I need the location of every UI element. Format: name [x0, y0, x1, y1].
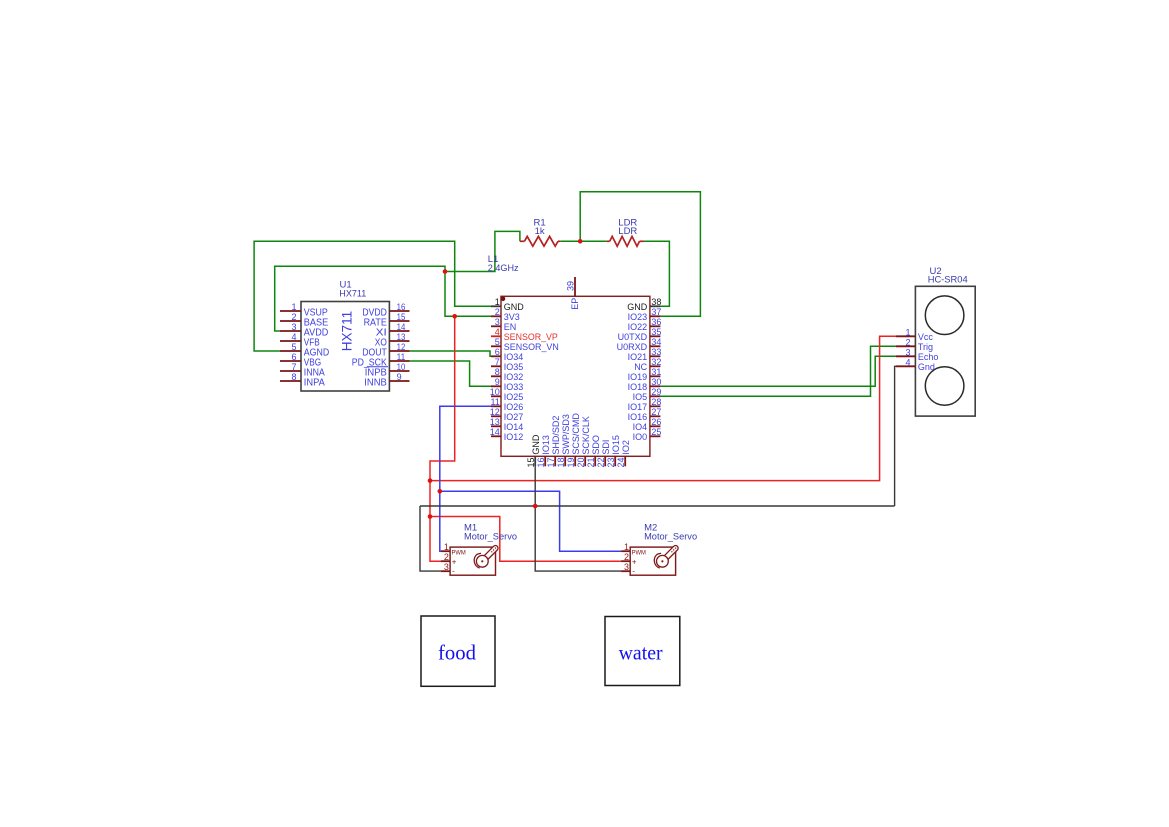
wire black ESP GND pin15 down to M2 minus pin3: [535, 466, 621, 571]
svg-text:-: -: [452, 567, 455, 576]
svg-text:food: food: [438, 640, 476, 664]
svg-text:14: 14: [397, 322, 406, 332]
wire green junction down to ESP 3V3 pin2: [445, 272, 491, 317]
svg-text:IO35: IO35: [504, 362, 524, 372]
svg-text:22: 22: [596, 457, 606, 467]
junction blue M2 branch: [438, 489, 443, 494]
svg-text:GND: GND: [531, 434, 541, 455]
svg-text:GND: GND: [504, 302, 525, 312]
wire green AGND to ESP GND pin1: [254, 241, 491, 351]
svg-text:SENSOR_VN: SENSOR_VN: [504, 342, 559, 352]
svg-text:33: 33: [651, 347, 661, 357]
svg-text:PWM: PWM: [452, 550, 466, 557]
wire black rail left end down to M1 minus pin3: [420, 506, 441, 571]
svg-text:2.4GHz: 2.4GHz: [488, 263, 519, 274]
svg-text:6: 6: [495, 347, 500, 357]
svg-text:+: +: [632, 558, 637, 567]
svg-text:4: 4: [905, 357, 910, 367]
svg-text:SDO: SDO: [591, 435, 601, 455]
svg-text:IO22: IO22: [628, 322, 648, 332]
svg-text:INPA: INPA: [304, 378, 325, 389]
svg-text:Motor_Servo: Motor_Servo: [644, 532, 697, 543]
svg-text:32: 32: [651, 357, 661, 367]
svg-text:23: 23: [606, 457, 616, 467]
svg-text:IO0: IO0: [633, 432, 648, 442]
svg-text:3: 3: [291, 322, 296, 332]
svg-text:17: 17: [546, 457, 556, 467]
svg-text:27: 27: [651, 407, 661, 417]
svg-text:10: 10: [397, 362, 406, 372]
svg-text:+: +: [452, 558, 457, 567]
svg-text:30: 30: [651, 377, 661, 387]
wire green ESP IO18 pin30 to Echo: [660, 356, 896, 386]
svg-text:2: 2: [291, 312, 296, 322]
svg-text:25: 25: [651, 427, 661, 437]
svg-text:1: 1: [444, 542, 449, 552]
svg-text:SDI: SDI: [601, 440, 611, 455]
U1 HX711 load-cell amplifier: [301, 302, 389, 392]
svg-text:HX711: HX711: [339, 288, 366, 299]
svg-text:35: 35: [651, 327, 661, 337]
wire green R1 right to LDR left: [560, 240, 607, 242]
svg-text:11: 11: [490, 397, 499, 407]
svg-text:SENSOR_VP: SENSOR_VP: [504, 332, 558, 342]
svg-text:EP: EP: [570, 298, 580, 310]
svg-text:3: 3: [905, 347, 910, 357]
svg-text:IO21: IO21: [628, 352, 648, 362]
svg-text:28: 28: [651, 397, 661, 407]
svg-text:13: 13: [490, 417, 500, 427]
svg-text:LDR: LDR: [618, 226, 637, 237]
water box: [605, 617, 680, 686]
photoresistor LDR: [607, 240, 610, 242]
svg-text:26: 26: [651, 417, 661, 427]
svg-text:SWP/SD3: SWP/SD3: [561, 414, 571, 455]
svg-text:IO19: IO19: [628, 372, 648, 382]
svg-text:16: 16: [536, 457, 546, 467]
svg-text:IO2: IO2: [621, 440, 631, 455]
svg-text:5: 5: [291, 342, 296, 352]
svg-text:12: 12: [397, 342, 406, 352]
wire red branch to M2 plus pin2: [430, 517, 621, 562]
svg-text:8: 8: [291, 372, 296, 382]
junction R1-LDR divider tap: [578, 239, 583, 244]
wire black ground rail: [420, 505, 895, 507]
junction red rail tap: [428, 478, 433, 483]
wire blue branch to M2 PWM pin1: [440, 491, 621, 551]
svg-text:1: 1: [495, 297, 500, 307]
svg-text:18: 18: [556, 457, 566, 467]
wire green junction to antenna L1 to R1: [445, 231, 520, 271]
food box: [421, 616, 495, 686]
svg-text:Echo: Echo: [918, 352, 939, 362]
svg-text:Gnd: Gnd: [918, 362, 935, 372]
svg-text:16: 16: [397, 302, 406, 312]
svg-text:HX711: HX711: [340, 311, 355, 352]
svg-text:NC: NC: [634, 362, 647, 372]
svg-text:IO27: IO27: [504, 412, 524, 422]
svg-text:3: 3: [495, 317, 500, 327]
svg-text:1: 1: [905, 327, 910, 337]
svg-text:2: 2: [624, 552, 629, 562]
ESP32 pin1 corner dot: [501, 297, 506, 302]
wire green divider tap up over to ESP IO23 pin37: [580, 192, 700, 316]
svg-text:IO12: IO12: [504, 432, 524, 442]
svg-text:IO4: IO4: [633, 422, 648, 432]
svg-text:IO25: IO25: [504, 392, 524, 402]
svg-text:IO16: IO16: [628, 412, 648, 422]
svg-text:10: 10: [490, 387, 500, 397]
svg-text:39: 39: [565, 281, 575, 291]
svg-text:SCK/CLK: SCK/CLK: [581, 416, 591, 455]
svg-text:IO18: IO18: [628, 382, 648, 392]
svg-text:PWM: PWM: [632, 550, 646, 557]
ESP32 bottom pins 15-24: [534, 456, 536, 466]
wire green PD_SCK to ESP IO33 pin9: [410, 361, 492, 386]
svg-text:37: 37: [651, 307, 661, 317]
wire blue ESP IO26 pin11 down to M1 PWM pin1: [440, 406, 491, 551]
junction red M2 branch: [428, 514, 433, 519]
svg-text:13: 13: [397, 332, 406, 342]
svg-text:U0RXD: U0RXD: [617, 342, 648, 352]
svg-text:IO5: IO5: [633, 392, 648, 402]
svg-text:Vcc: Vcc: [918, 332, 934, 342]
svg-text:IO23: IO23: [628, 312, 648, 322]
wire green ESP IO5 pin29 to Trig: [660, 346, 896, 396]
svg-text:21: 21: [586, 457, 596, 467]
svg-text:SHD/SD2: SHD/SD2: [551, 416, 561, 455]
svg-text:14: 14: [490, 427, 500, 437]
motor M2 Motor_Servo: [630, 547, 675, 575]
svg-text:5: 5: [495, 337, 500, 347]
wire black rail right end up to HC-SR04 Gnd: [895, 366, 896, 506]
junction AVDD/3V3/antenna node: [443, 269, 448, 274]
svg-text:Trig: Trig: [918, 342, 933, 352]
svg-text:34: 34: [651, 337, 661, 347]
svg-text:2: 2: [905, 337, 910, 347]
svg-text:3: 3: [624, 562, 629, 572]
wire green AVDD to 3V3 junction: [275, 266, 445, 331]
ESP32 left pins 1-14: [491, 305, 501, 307]
ESP32 top pin 39 EP: [574, 277, 576, 296]
svg-text:IO32: IO32: [504, 372, 524, 382]
svg-text:IO13: IO13: [541, 435, 551, 455]
svg-text:4: 4: [291, 332, 296, 342]
svg-text:Motor_Servo: Motor_Servo: [464, 532, 517, 543]
svg-text:HC-SR04: HC-SR04: [928, 275, 968, 286]
motor M1 Motor_Servo: [450, 547, 495, 575]
svg-text:IO33: IO33: [504, 382, 524, 392]
svg-text:2: 2: [495, 307, 500, 317]
svg-text:3V3: 3V3: [504, 312, 520, 322]
svg-text:15: 15: [397, 312, 406, 322]
svg-text:SCS/CMD: SCS/CMD: [571, 413, 581, 455]
svg-text:6: 6: [291, 352, 296, 362]
svg-text:7: 7: [291, 362, 296, 372]
U2 HC-SR04 ultrasonic sensor: [915, 286, 975, 416]
svg-text:29: 29: [651, 387, 661, 397]
junction black rail and ESP GND: [533, 504, 538, 509]
wire green DOUT to ESP IO34 pin6: [410, 351, 492, 356]
svg-text:IO17: IO17: [628, 402, 648, 412]
ESP32 module body: [501, 296, 650, 456]
svg-text:U0TXD: U0TXD: [618, 332, 648, 342]
svg-text:IO26: IO26: [504, 402, 524, 412]
svg-text:9: 9: [397, 372, 402, 382]
svg-text:11: 11: [397, 352, 406, 362]
svg-text:8: 8: [495, 367, 500, 377]
svg-text:1: 1: [291, 302, 296, 312]
wire red 3V3 tap down to M1 plus pin2: [430, 316, 455, 561]
wire red power rail to HC-SR04 Vcc: [430, 336, 896, 480]
svg-text:1: 1: [624, 542, 629, 552]
svg-text:4: 4: [495, 327, 500, 337]
svg-text:IO15: IO15: [611, 435, 621, 455]
svg-text:9: 9: [495, 377, 500, 387]
svg-text:15: 15: [526, 457, 536, 467]
svg-text:EN: EN: [504, 322, 517, 332]
svg-text:19: 19: [566, 457, 576, 467]
svg-text:INNB: INNB: [364, 378, 387, 389]
svg-text:2: 2: [444, 552, 449, 562]
resistor R1 1k: [520, 240, 525, 242]
svg-text:38: 38: [651, 297, 661, 307]
svg-text:24: 24: [616, 457, 626, 467]
svg-text:IO14: IO14: [504, 422, 524, 432]
svg-text:36: 36: [651, 317, 661, 327]
svg-text:3: 3: [444, 562, 449, 572]
junction red power tap on 3V3 wire: [452, 314, 457, 319]
ESP32 right pins 25-38: [650, 305, 661, 307]
svg-text:20: 20: [576, 457, 586, 467]
svg-text:water: water: [619, 640, 663, 664]
svg-text:1k: 1k: [535, 226, 545, 237]
svg-text:12: 12: [490, 407, 500, 417]
svg-text:7: 7: [495, 357, 500, 367]
wire green LDR right down to ESP GND pin38: [644, 241, 670, 306]
svg-text:IO34: IO34: [504, 352, 524, 362]
svg-text:31: 31: [651, 367, 661, 377]
svg-text:GND: GND: [627, 302, 648, 312]
svg-text:-: -: [632, 567, 635, 576]
